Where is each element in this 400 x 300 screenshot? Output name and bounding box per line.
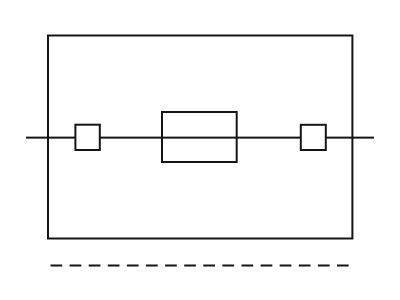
fuse holder (center rectangle) <box>162 112 237 162</box>
terminal block body outline <box>48 36 352 239</box>
right clamp contact (small square) <box>301 125 326 150</box>
left clamp contact (small square) <box>75 125 99 150</box>
mounting rail (dashed line) <box>51 265 349 267</box>
wire (through-conductor) <box>26 137 374 139</box>
